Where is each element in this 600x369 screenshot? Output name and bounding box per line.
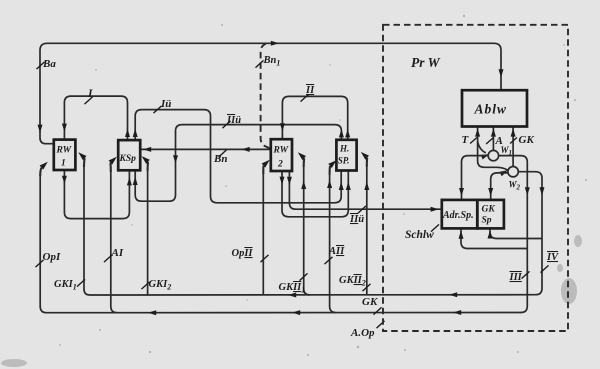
svg-text:Bn1: Bn1 bbox=[263, 55, 281, 68]
arrow up mid AII bbox=[327, 180, 332, 188]
box Adr.Sp bbox=[442, 200, 478, 229]
tick A bbox=[486, 138, 493, 144]
arc branch from T line into W1 bbox=[478, 142, 486, 153]
arrow up into H.SP bottom (from RW2) bbox=[346, 182, 351, 190]
arrow up into GK Sp bottom bbox=[488, 230, 493, 238]
arrow down out of RW2 (IIue-lower) bbox=[287, 177, 292, 185]
wire Ba top bus: RW1 left edge, up, across top, down into Ablw top bbox=[40, 43, 501, 143]
tick Ba bbox=[37, 62, 45, 69]
arrowhead into W1 bbox=[481, 154, 490, 159]
svg-text:OpII: OpII bbox=[232, 248, 254, 259]
sum node W1 bbox=[488, 150, 498, 160]
arrowhead OpI hook bbox=[40, 162, 48, 170]
tick I bbox=[85, 97, 93, 104]
svg-text:1: 1 bbox=[61, 159, 66, 169]
tick GKII1 bbox=[300, 273, 308, 280]
svg-text:T: T bbox=[462, 134, 470, 146]
wire GKII1: hook at RW2 lower-right, down to bus1 bbox=[303, 158, 306, 167]
wire OpII: hook at RW2 lower-left, down to bus1 T bbox=[262, 166, 264, 174]
arrow down into GK Sp top bbox=[488, 188, 493, 196]
svg-text:Ablw: Ablw bbox=[474, 102, 508, 117]
arrowhead OpII hook bbox=[262, 160, 270, 168]
arrow up into Ablw (A) bbox=[491, 128, 496, 136]
box GK Sp bbox=[477, 200, 504, 229]
svg-text:GKI2: GKI2 bbox=[149, 279, 172, 292]
svg-text:Pr W: Pr W bbox=[411, 55, 441, 70]
dashed Pr W box bbox=[383, 25, 568, 331]
box H.SP bbox=[336, 140, 356, 171]
svg-text:GK: GK bbox=[519, 134, 535, 146]
arrowhead GKII1 hook bbox=[298, 152, 306, 160]
tick AI bbox=[104, 255, 112, 262]
wire RW2 bottom to H.SP bottom bbox=[282, 171, 348, 217]
arrowhead into W2 bbox=[500, 170, 508, 176]
svg-text:IV: IV bbox=[546, 252, 559, 263]
arrow right into Adr.Sp left bbox=[431, 207, 439, 212]
svg-text:AII: AII bbox=[328, 246, 345, 257]
tick GKI1 bbox=[77, 279, 85, 286]
svg-text:A.Op: A.Op bbox=[350, 327, 375, 339]
tick GK bus bbox=[374, 307, 382, 314]
box RW1 bbox=[54, 140, 76, 170]
arrow up mid GKII2 bbox=[364, 182, 369, 190]
arrow up out of KSp top (Iue) bbox=[133, 129, 138, 137]
arrow up out of KSp top (I) bbox=[125, 129, 130, 137]
tick III bbox=[522, 271, 530, 278]
arrow down into RW2 top (II) bbox=[280, 123, 285, 131]
wire AI: hook at KSp lower-left, down to bus2 bbox=[109, 163, 112, 172]
branch from IV vertical to GK Sp bottom bbox=[490, 229, 542, 239]
arrow up into KSp bottom (from RW1) bbox=[127, 177, 132, 185]
tick GKII2 bbox=[363, 284, 371, 291]
arrow up out of H.SP top (IIue) bbox=[339, 129, 344, 137]
arrow left on bus1 mid bbox=[288, 293, 296, 298]
arrow down on Ba vertical bbox=[38, 125, 43, 133]
arrow left on bus2 mid bbox=[292, 310, 300, 315]
svg-text:Schlw: Schlw bbox=[405, 229, 434, 241]
wire GKII2: hook at H.SP lower-right, down to bus1 T bbox=[366, 158, 369, 167]
arrow down into Adr.Sp top bbox=[459, 188, 464, 196]
wire W2 left to GK Sp top bbox=[491, 173, 508, 200]
svg-text:GK: GK bbox=[362, 296, 378, 308]
wire W2 right, down IV vertical, to bus1 corner bbox=[518, 172, 542, 295]
svg-text:GKII1: GKII1 bbox=[279, 282, 306, 295]
svg-text:AI: AI bbox=[111, 247, 124, 259]
svg-text:RW: RW bbox=[273, 146, 289, 156]
tick A.Op bbox=[377, 321, 385, 328]
arrow down on III vertical bbox=[525, 187, 530, 195]
svg-text:W2: W2 bbox=[509, 180, 521, 192]
svg-text:II: II bbox=[305, 85, 315, 96]
svg-text:GK: GK bbox=[482, 205, 496, 215]
arrow down out of RW1 bottom bbox=[62, 176, 67, 184]
arrow left on Bn at KSp bbox=[143, 147, 151, 152]
tick IV bbox=[541, 265, 549, 272]
arrow down out of RW2 (to HSP) bbox=[280, 177, 285, 185]
wire GK: W2 top to Ablw bottom bbox=[512, 127, 514, 167]
wire T: Ablw bottom down, corner right, into W2 left; arc branch into W1 bbox=[478, 127, 508, 170]
arrowhead AI hook bbox=[109, 157, 117, 165]
arrow down into Ablw top bbox=[499, 69, 504, 77]
tick T bbox=[470, 138, 477, 144]
arrow down mid IIue vertical bbox=[173, 155, 178, 163]
arrow up into Ablw (T) bbox=[475, 128, 480, 136]
svg-text:Sp: Sp bbox=[482, 216, 492, 226]
svg-text:OpI: OpI bbox=[43, 251, 61, 263]
arrowhead GKI1 hook bbox=[78, 152, 86, 160]
arrow up into KSp bottom (IIue) bbox=[133, 177, 138, 185]
wire RW1 bottom to KSp bottom bbox=[64, 170, 129, 218]
wire A: W1 top to Ablw bottom bbox=[492, 127, 494, 151]
arrow right on top bus bbox=[271, 41, 279, 46]
bus2 GK bus y312.6: from OpI corner right to III corner bbox=[40, 306, 521, 313]
tick Bn1 bbox=[256, 60, 264, 67]
arrow left on Bn mid bbox=[242, 147, 250, 152]
wire I: KSp top to RW1 top loop bbox=[64, 96, 127, 140]
box KSp bbox=[118, 140, 140, 170]
arrowhead AII hook bbox=[328, 160, 336, 168]
arrow left on bus1 right bbox=[449, 292, 457, 297]
arrow left on bus2 right bbox=[453, 310, 461, 315]
box RW2 bbox=[271, 139, 292, 171]
tick Iue bbox=[154, 106, 162, 113]
svg-text:IIü: IIü bbox=[349, 214, 364, 225]
svg-text:2: 2 bbox=[277, 160, 283, 170]
tick GK input bbox=[510, 138, 517, 144]
tick II bbox=[301, 94, 309, 101]
arrow down into RW1 top (I) bbox=[62, 124, 67, 132]
wire OpI: hook arrow at RW1 lower-left, down to bus2 corner bbox=[40, 168, 41, 176]
svg-text:GKI1: GKI1 bbox=[54, 279, 77, 292]
svg-text:H.: H. bbox=[339, 144, 349, 154]
wire Bn: RW2 left edge to KSp right edge bbox=[141, 148, 271, 150]
svg-text:IIü: IIü bbox=[226, 115, 241, 126]
svg-text:Ba: Ba bbox=[42, 58, 56, 70]
sum node W2 bbox=[508, 167, 518, 177]
svg-text:KSp: KSp bbox=[119, 154, 137, 164]
box Ablw bbox=[462, 90, 527, 126]
arrow up mid GKII1 bbox=[301, 181, 306, 189]
arrow left on bus2 left bbox=[148, 310, 156, 315]
arrowhead GKI2 hook bbox=[142, 156, 150, 164]
svg-text:III: III bbox=[509, 272, 523, 283]
wire Bn1 dashed branch from top bus down to Bn wire bbox=[261, 44, 271, 149]
wire AII: hook at H.SP lower-left, down to bus2 bbox=[329, 166, 331, 175]
svg-text:Adr.Sp.: Adr.Sp. bbox=[442, 210, 474, 221]
tick Schlw bbox=[431, 224, 439, 231]
tick GKI2 bbox=[142, 282, 150, 289]
arrow up into H.SP bottom (Iue) bbox=[339, 182, 344, 190]
arrowhead GKII2 hook bbox=[361, 152, 369, 160]
svg-text:Iü: Iü bbox=[160, 98, 171, 110]
tick Bn bbox=[219, 150, 227, 157]
svg-text:SP.: SP. bbox=[338, 156, 350, 166]
wire W1 left to Adr.Sp top bbox=[462, 156, 489, 200]
arrow up into Adr.Sp bottom bbox=[459, 231, 464, 239]
wire II loop: H.SP top up, left, down into RW2 top bbox=[282, 96, 347, 139]
arrow down on IV vertical bbox=[540, 187, 545, 195]
wire IIue-lower: RW2 bottom down, right into Adr.Sp left bbox=[289, 171, 441, 209]
wire GKI2: hook at KSp lower-right, down to bus1 T bbox=[147, 162, 149, 171]
wire W1 right, down III vertical, to GK bus corner bbox=[499, 156, 528, 313]
wire IIue-upper: from y124.6 down into KSp bottom, and right into H.SP top bbox=[135, 125, 341, 202]
arrow up into Ablw (GK) bbox=[511, 128, 516, 136]
bus1 y295: from GKI1 corner right to IV corner bbox=[84, 289, 536, 295]
tick IIue upper bbox=[223, 121, 231, 128]
branch from III vertical to Adr.Sp bottom bbox=[461, 229, 527, 249]
tick OpI bbox=[36, 260, 44, 267]
tick AII bbox=[325, 257, 333, 264]
wire GKI1: hook arrow at RW1 lower-right, down to bus1 corner bbox=[83, 158, 86, 167]
arrow up out of H.SP top (II) bbox=[345, 129, 350, 137]
svg-text:RW: RW bbox=[56, 146, 72, 156]
tick IIue lower bbox=[358, 206, 366, 213]
tick OpII bbox=[261, 255, 269, 262]
svg-text:GKII2: GKII2 bbox=[339, 275, 366, 288]
wire Iue: KSp top up, right, down, right along y203, up into H.SP bottom bbox=[135, 110, 341, 203]
